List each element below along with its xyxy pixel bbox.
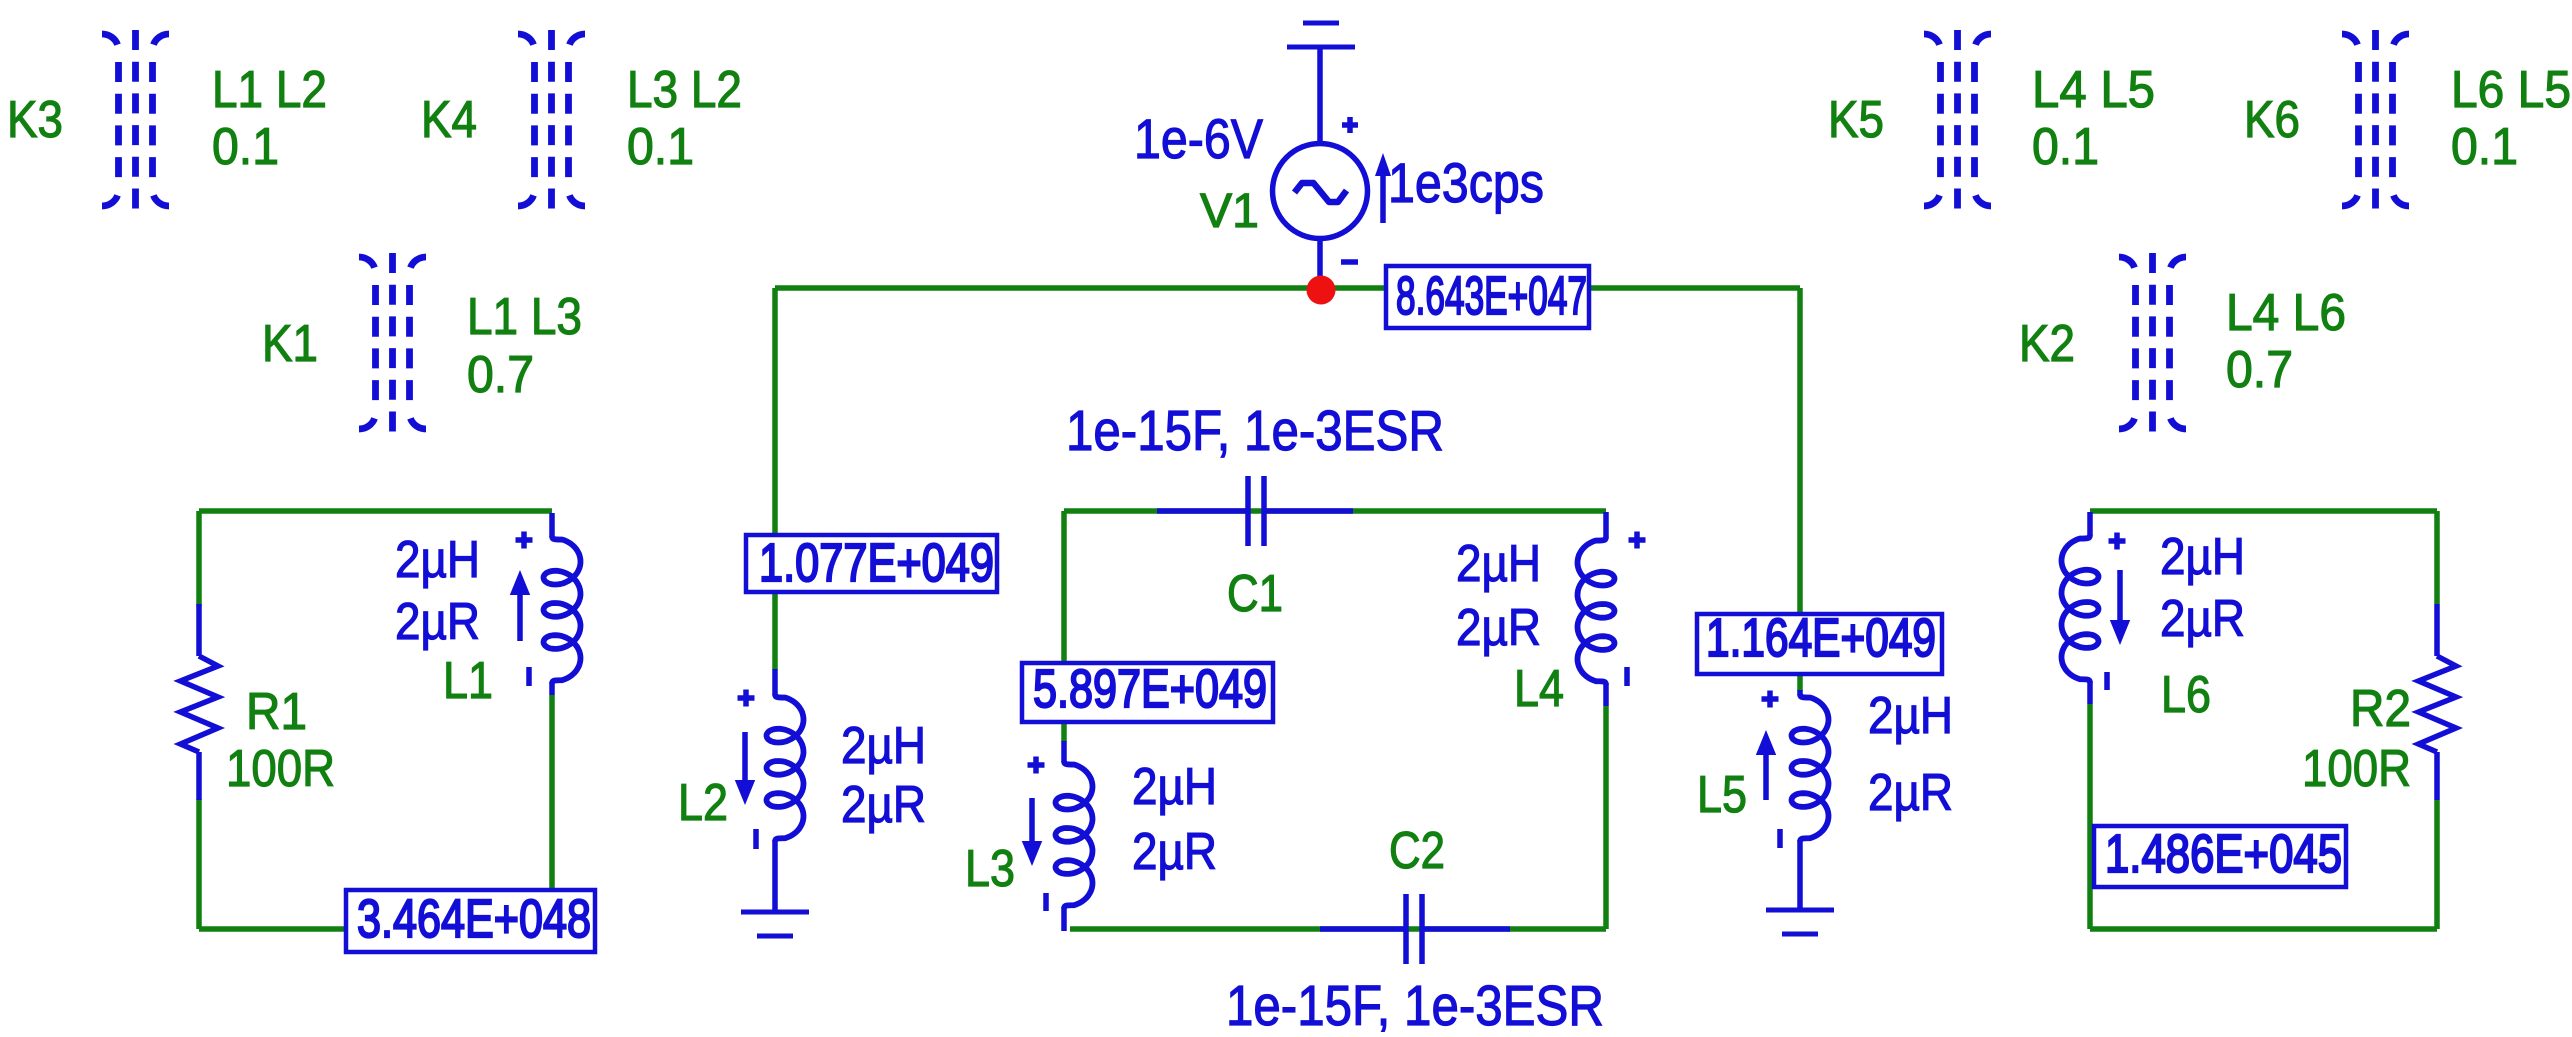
svg-text:2µH: 2µH: [1456, 535, 1541, 593]
svg-text:3.464E+048: 3.464E+048: [357, 889, 591, 949]
svg-text:L5: L5: [1697, 766, 1747, 824]
svg-text:100R: 100R: [226, 740, 335, 798]
svg-text:K3: K3: [7, 91, 63, 149]
svg-text:L3 L2: L3 L2: [627, 61, 742, 119]
svg-text:1e-6V: 1e-6V: [1134, 107, 1264, 170]
svg-text:L6 L5: L6 L5: [2451, 61, 2571, 119]
svg-text:8.643E+047: 8.643E+047: [1396, 266, 1587, 326]
svg-text:2µR: 2µR: [1456, 599, 1541, 657]
svg-text:2µH: 2µH: [1132, 758, 1217, 816]
svg-text:2µH: 2µH: [2160, 528, 2245, 586]
svg-text:L4 L6: L4 L6: [2226, 284, 2346, 342]
svg-text:K5: K5: [1828, 91, 1884, 149]
svg-text:L1: L1: [443, 652, 493, 710]
svg-text:2µR: 2µR: [395, 593, 480, 651]
svg-text:K6: K6: [2244, 91, 2300, 149]
svg-text:L2: L2: [678, 774, 728, 832]
svg-text:1e3cps: 1e3cps: [1388, 151, 1544, 214]
svg-text:0.1: 0.1: [2032, 118, 2099, 176]
svg-text:5.897E+049: 5.897E+049: [1033, 659, 1267, 719]
svg-text:1.164E+049: 1.164E+049: [1706, 608, 1936, 668]
svg-text:R2: R2: [2350, 680, 2411, 738]
svg-text:2µR: 2µR: [1868, 764, 1953, 822]
svg-text:2µH: 2µH: [395, 531, 480, 589]
svg-text:K4: K4: [421, 91, 477, 149]
svg-text:C2: C2: [1389, 822, 1445, 880]
svg-text:V1: V1: [1200, 185, 1259, 238]
svg-text:C1: C1: [1227, 565, 1283, 623]
svg-text:100R: 100R: [2302, 740, 2411, 798]
svg-text:0.1: 0.1: [212, 118, 279, 176]
svg-text:2µH: 2µH: [1868, 687, 1953, 745]
svg-text:L6: L6: [2161, 666, 2211, 724]
svg-text:L4: L4: [1514, 660, 1564, 718]
svg-text:K2: K2: [2019, 315, 2075, 373]
svg-text:2µR: 2µR: [841, 776, 926, 834]
svg-text:0.1: 0.1: [2451, 118, 2518, 176]
svg-text:1e-15F, 1e-3ESR: 1e-15F, 1e-3ESR: [1066, 399, 1444, 463]
svg-text:2µR: 2µR: [1132, 823, 1217, 881]
svg-text:1.077E+049: 1.077E+049: [759, 533, 994, 593]
svg-text:0.7: 0.7: [467, 346, 534, 404]
svg-text:2µR: 2µR: [2160, 590, 2245, 648]
svg-text:1.486E+045: 1.486E+045: [2105, 824, 2342, 884]
svg-text:2µH: 2µH: [841, 717, 926, 775]
svg-text:0.7: 0.7: [2226, 341, 2293, 399]
svg-text:1e-15F, 1e-3ESR: 1e-15F, 1e-3ESR: [1226, 974, 1604, 1032]
svg-text:K1: K1: [262, 315, 318, 373]
svg-text:L3: L3: [965, 840, 1015, 898]
svg-text:L4 L5: L4 L5: [2032, 61, 2155, 119]
svg-text:L1 L2: L1 L2: [212, 61, 327, 119]
svg-text:0.1: 0.1: [627, 118, 694, 176]
svg-text:L1 L3: L1 L3: [467, 288, 582, 346]
svg-text:R1: R1: [246, 683, 307, 741]
